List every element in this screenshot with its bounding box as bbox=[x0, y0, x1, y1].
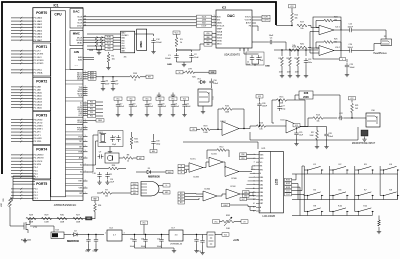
svg-text:X2: X2 bbox=[80, 165, 82, 167]
wire bbox=[240, 193, 246, 195]
wire bbox=[226, 150, 229, 157]
switch K4 bbox=[382, 164, 399, 174]
wire bbox=[292, 194, 305, 195]
node net label bbox=[88, 111, 96, 114]
svg-text:10uF: 10uF bbox=[269, 35, 274, 37]
node MMC net bbox=[105, 35, 113, 38]
wire keypad col tap bbox=[355, 169, 357, 171]
connector X13 DC plug bbox=[51, 230, 64, 239]
svg-text:R38: R38 bbox=[304, 92, 309, 95]
capacitor C4 / C3 cluster box bbox=[246, 52, 264, 65]
wire IC1 pin D- stub bbox=[83, 104, 88, 106]
wire bbox=[119, 168, 127, 170]
wire IC1 pin EVB stub bbox=[83, 151, 88, 153]
wire keypad col tap bbox=[330, 211, 332, 213]
svg-text:SCLK: SCLK bbox=[77, 17, 83, 19]
wire PORT1 pin P1.3/CEX0 bbox=[11, 59, 33, 61]
switch K9 bbox=[306, 206, 323, 216]
op IC2 UDA1330ATS DAC bbox=[214, 6, 252, 48]
svg-text:13: 13 bbox=[253, 199, 255, 201]
wire IC1 pin INT stub bbox=[83, 146, 88, 148]
ground bbox=[377, 229, 381, 234]
node net bbox=[178, 195, 185, 198]
wire bbox=[251, 166, 253, 170]
svg-text:P0.6/AD6: P0.6/AD6 bbox=[34, 36, 43, 39]
wire bbox=[326, 127, 328, 132]
wire bbox=[117, 100, 119, 102]
svg-text:P3.5/T1: P3.5/T1 bbox=[34, 135, 42, 137]
DAC block of IC1 bbox=[70, 9, 83, 29]
svg-text:C47: C47 bbox=[130, 239, 133, 241]
svg-text:P2.4/A12: P2.4/A12 bbox=[34, 97, 43, 100]
wire keypad col tap bbox=[380, 195, 382, 197]
svg-text:P2.6/A14: P2.6/A14 bbox=[34, 103, 43, 106]
wire bbox=[96, 105, 104, 107]
wire bbox=[346, 70, 348, 73]
wire bbox=[212, 32, 216, 34]
node net label bbox=[88, 107, 96, 110]
wire bbox=[308, 26, 319, 28]
wire keypad col tap bbox=[355, 211, 357, 213]
svg-text:33pF: 33pF bbox=[112, 144, 116, 146]
wire I2S bus line bbox=[87, 22, 216, 24]
wire bbox=[95, 244, 97, 247]
svg-text:ROW1: ROW1 bbox=[286, 180, 290, 182]
svg-text:R23: R23 bbox=[294, 58, 297, 60]
resistor R8 bbox=[123, 154, 133, 159]
node VCC bbox=[256, 95, 263, 99]
node net label bbox=[88, 77, 96, 80]
wire bbox=[96, 112, 104, 114]
IC1 pin cell bbox=[66, 179, 84, 184]
svg-text:100nF: 100nF bbox=[119, 106, 124, 108]
port box PORT2 bbox=[33, 77, 50, 111]
svg-text:P0.4/AD4: P0.4/AD4 bbox=[34, 29, 43, 32]
op-amp IC3:E bbox=[225, 167, 239, 177]
wire IC1 pin AVDD stub bbox=[83, 76, 88, 78]
wire bbox=[196, 244, 198, 248]
wire audio L bbox=[274, 49, 318, 51]
svg-text:X1: X1 bbox=[80, 172, 82, 174]
AIN block of IC1 bbox=[70, 49, 83, 70]
svg-text:CD/DAT3: CD/DAT3 bbox=[121, 34, 128, 37]
node VDD label bbox=[204, 32, 212, 35]
svg-text:AIN1: AIN1 bbox=[78, 58, 82, 61]
wire bbox=[247, 154, 257, 156]
wire IC2 to C5 bbox=[252, 41, 268, 43]
IC1 pin cell bbox=[66, 135, 84, 138]
wire MMC signal bbox=[87, 48, 121, 50]
svg-text:DWS: DWS bbox=[78, 20, 83, 22]
capacitor C19 bbox=[145, 102, 149, 109]
svg-text:P2.7/A15: P2.7/A15 bbox=[34, 106, 43, 109]
wire PORT5 pin P5.1 bbox=[11, 191, 33, 193]
resistor R21 bbox=[351, 104, 354, 113]
wire bbox=[131, 132, 133, 137]
svg-text:GND: GND bbox=[265, 66, 270, 68]
wire bbox=[203, 162, 209, 168]
wire pullup gnd join bbox=[97, 47, 102, 51]
svg-text:DB5: DB5 bbox=[260, 196, 264, 198]
wire PORT2 pin P2.4/A12 bbox=[11, 98, 33, 100]
wire bbox=[159, 185, 164, 187]
node net bbox=[222, 233, 229, 237]
diode VD1 bbox=[199, 80, 207, 84]
svg-text:PORT1: PORT1 bbox=[36, 45, 47, 49]
op U21 LCD module bbox=[253, 148, 284, 218]
svg-text:100nF: 100nF bbox=[161, 106, 166, 108]
IC1 pin cell bbox=[66, 186, 84, 191]
svg-text:IC6:1: IC6:1 bbox=[335, 27, 340, 29]
wire bbox=[202, 235, 204, 239]
connector X9 headphone jack bbox=[381, 36, 392, 46]
wire bbox=[88, 119, 97, 121]
svg-text:P1.1/T2EX: P1.1/T2EX bbox=[34, 54, 44, 56]
wire keypad col tap bbox=[304, 169, 306, 171]
node RW bbox=[240, 157, 247, 160]
svg-text:PORT2: PORT2 bbox=[36, 79, 47, 83]
wire IC1 pin ADC0 stub bbox=[83, 72, 88, 74]
wire IC1 pin X1 stub bbox=[83, 171, 88, 173]
svg-text:100nF: 100nF bbox=[262, 106, 268, 108]
wire IC1 pin ISP stub bbox=[83, 193, 88, 195]
crystal BQ1 network box bbox=[98, 131, 123, 147]
ground bbox=[157, 93, 161, 98]
wire PORT2 pin P2.5/A13 bbox=[11, 101, 33, 103]
svg-text:DATA: DATA bbox=[217, 21, 222, 24]
svg-text:100k: 100k bbox=[134, 141, 138, 143]
svg-text:100R: 100R bbox=[76, 221, 81, 223]
svg-text:MMC: MMC bbox=[139, 41, 143, 48]
wire keypad row 2 bbox=[292, 199, 398, 201]
capacitor C28 bbox=[324, 132, 328, 139]
svg-text:100R: 100R bbox=[60, 221, 65, 223]
potentiometer R35 bbox=[9, 198, 12, 207]
wire cap join bbox=[177, 49, 192, 51]
svg-text:VREF: VREF bbox=[217, 29, 223, 31]
svg-text:100nF: 100nF bbox=[348, 47, 354, 49]
svg-text:PVSS: PVSS bbox=[77, 130, 83, 132]
svg-text:P0.5/AD5: P0.5/AD5 bbox=[34, 32, 43, 35]
svg-text:C56: C56 bbox=[213, 80, 216, 82]
svg-text:C10: C10 bbox=[93, 173, 96, 175]
ground bbox=[106, 65, 110, 70]
svg-text:MBR0530: MBR0530 bbox=[148, 174, 160, 178]
wire I2S bus line bbox=[87, 19, 216, 21]
wire IC2 bottom pin stub bbox=[239, 48, 241, 51]
resistor R13 bbox=[257, 122, 266, 127]
svg-text:VD1: VD1 bbox=[197, 78, 201, 80]
wire bbox=[112, 192, 133, 194]
wire AIN pin stub bbox=[83, 59, 87, 61]
wire bbox=[96, 115, 104, 117]
capacitor C18 bbox=[200, 238, 204, 245]
wire IC1 pin ADC1 stub bbox=[83, 74, 88, 76]
wire PORT2 pin P2.0/A8 bbox=[11, 86, 33, 88]
svg-text:VOUTR: VOUTR bbox=[245, 20, 252, 22]
wire PORT3 pin P3.0/RXD bbox=[11, 119, 33, 121]
potentiometer R31 bbox=[222, 215, 234, 230]
svg-text:200K: 200K bbox=[303, 96, 309, 99]
node net bbox=[178, 198, 185, 201]
ground bbox=[86, 247, 90, 252]
wire bbox=[215, 234, 222, 236]
node keypad net bbox=[285, 182, 292, 185]
svg-text:C27: C27 bbox=[281, 106, 284, 108]
wire PORT5 pin bbox=[13, 175, 35, 177]
resistor R38 bbox=[299, 91, 313, 99]
svg-text:PORT3: PORT3 bbox=[36, 114, 47, 118]
wire PORT5 pin P5.2 bbox=[11, 194, 33, 196]
wire bbox=[305, 65, 307, 73]
op-amp IC3:D bbox=[209, 157, 223, 167]
wire IC1 pin MOSI stub bbox=[83, 93, 88, 95]
capacitor C11 bbox=[105, 172, 109, 179]
svg-text:BQ1: BQ1 bbox=[99, 132, 103, 134]
svg-text:10k: 10k bbox=[292, 45, 295, 47]
svg-text:VDDA: VDDA bbox=[217, 31, 223, 34]
svg-text:DB1: DB1 bbox=[260, 181, 264, 183]
svg-text:LCD-1602B: LCD-1602B bbox=[262, 215, 275, 218]
wire bbox=[184, 109, 186, 112]
svg-text:C16: C16 bbox=[157, 239, 160, 241]
node net label bbox=[88, 114, 96, 117]
wire bbox=[291, 8, 293, 13]
svg-text:P3.2/INT0: P3.2/INT0 bbox=[34, 126, 44, 128]
wire feedback1b bbox=[316, 21, 324, 28]
wire PORT2 pin P2.6/A14 bbox=[11, 104, 33, 106]
svg-text:C22: C22 bbox=[339, 113, 342, 115]
node keypad net bbox=[285, 178, 292, 181]
svg-text:PORT5: PORT5 bbox=[36, 182, 47, 186]
wire to X13 bbox=[30, 226, 54, 232]
wire bbox=[305, 50, 307, 56]
wire PORT4 pin P4.5 bbox=[11, 170, 33, 172]
wire bbox=[161, 244, 163, 248]
wire IC1 pin PVDD stub bbox=[83, 127, 88, 129]
wire MMC signal bbox=[87, 45, 121, 47]
svg-text:P0.3/AD3: P0.3/AD3 bbox=[34, 26, 43, 29]
svg-text:DOUT: DOUT bbox=[77, 26, 83, 28]
wire keypad column bbox=[354, 166, 356, 212]
svg-text:P3.0/RXD: P3.0/RXD bbox=[34, 119, 43, 121]
ground bbox=[172, 248, 176, 253]
wire bbox=[254, 64, 256, 66]
node net bbox=[141, 221, 148, 225]
wire bbox=[176, 48, 178, 52]
ground bbox=[362, 137, 366, 142]
wire IC1 pin PVSS stub bbox=[83, 129, 88, 131]
svg-text:DAT2: DAT2 bbox=[121, 32, 125, 35]
svg-text:IC2: IC2 bbox=[222, 6, 227, 10]
capacitor C44 bbox=[86, 237, 90, 244]
wire bbox=[250, 207, 256, 211]
wire PORT0 pin P0.1/AD1 bbox=[11, 20, 33, 22]
resistor R2 bbox=[107, 54, 110, 62]
svg-text:RS0: RS0 bbox=[242, 154, 245, 156]
wire AIN pin stub bbox=[83, 56, 87, 58]
resistor R5 pullup bbox=[95, 37, 98, 47]
wire bbox=[378, 227, 380, 229]
svg-text:P3.7/RD: P3.7/RD bbox=[34, 141, 42, 143]
svg-text:AIN: AIN bbox=[74, 50, 79, 54]
resistor R14 bbox=[313, 114, 323, 119]
switch K11 bbox=[357, 206, 374, 216]
node net bbox=[178, 171, 185, 174]
svg-text:MMC: MMC bbox=[73, 32, 81, 36]
node keypad net bbox=[285, 193, 292, 196]
svg-text:C25: C25 bbox=[350, 64, 353, 66]
wire IC1 pin FILT stub bbox=[83, 136, 88, 138]
wire keypad col tap bbox=[304, 195, 306, 197]
svg-text:1k: 1k bbox=[134, 80, 136, 82]
node net bbox=[209, 71, 216, 75]
wire bbox=[153, 45, 155, 49]
svg-text:10uF: 10uF bbox=[85, 251, 89, 253]
svg-text:PORT0: PORT0 bbox=[36, 11, 47, 15]
node I2S net label bbox=[197, 15, 212, 18]
ground bbox=[116, 112, 120, 117]
port box PORT0 bbox=[33, 8, 50, 42]
wire bbox=[153, 146, 155, 150]
IC1 pin cell bbox=[66, 117, 84, 124]
wire bbox=[289, 66, 291, 73]
connector X12 USB bbox=[141, 182, 159, 196]
wire bbox=[136, 171, 145, 173]
ground bbox=[151, 49, 155, 54]
resistor R29 bbox=[42, 215, 52, 220]
node VCC bbox=[143, 97, 151, 101]
wire bbox=[176, 35, 178, 38]
IC1 pin cell bbox=[66, 170, 84, 175]
wire AIN bbox=[87, 59, 94, 61]
wire bbox=[230, 205, 257, 207]
wire bbox=[88, 235, 90, 238]
wire bbox=[122, 234, 169, 236]
wire bbox=[117, 109, 119, 112]
node VCC bbox=[289, 5, 296, 9]
wire to jack ring bbox=[352, 44, 381, 51]
resistor R1 bbox=[175, 38, 178, 47]
svg-text:C37: C37 bbox=[115, 81, 118, 83]
node VCC label bbox=[204, 39, 212, 42]
wire IC1 pin VSS stub bbox=[83, 187, 88, 189]
node net bbox=[213, 220, 220, 224]
IC1 pin cell bbox=[66, 150, 84, 153]
IC1 pin cell bbox=[66, 140, 84, 143]
svg-text:1k: 1k bbox=[127, 161, 129, 163]
node net bbox=[137, 156, 144, 160]
resistor R7 bbox=[102, 189, 112, 194]
svg-text:LIN: LIN bbox=[192, 129, 194, 131]
wire bbox=[217, 194, 226, 196]
wire out IC5:2 bbox=[239, 128, 244, 130]
svg-text:R21: R21 bbox=[355, 105, 358, 107]
node USB net bbox=[131, 192, 138, 195]
wire bbox=[316, 127, 318, 131]
svg-text:26: 26 bbox=[84, 24, 86, 26]
wire bbox=[185, 165, 190, 167]
svg-text:10K: 10K bbox=[226, 228, 230, 230]
node net bbox=[246, 192, 253, 195]
node net label bbox=[88, 75, 96, 78]
wire bbox=[212, 36, 216, 38]
svg-text:KEY: KEY bbox=[180, 199, 183, 201]
wire LCD data comb bbox=[252, 165, 256, 167]
wire PORT3 pin P3.6/WR bbox=[11, 137, 33, 139]
node MMC net bbox=[105, 41, 113, 44]
svg-text:CPU: CPU bbox=[54, 13, 62, 17]
resistor R15 bbox=[277, 96, 287, 101]
wire DAC pin stub bbox=[83, 22, 87, 24]
wire X1 bbox=[87, 135, 98, 172]
svg-text:UVSS: UVSS bbox=[77, 122, 83, 124]
svg-text:SCLK: SCLK bbox=[77, 23, 83, 25]
svg-text:23: 23 bbox=[84, 15, 86, 17]
ground bbox=[182, 62, 186, 67]
resistor R19b bbox=[297, 24, 307, 27]
wire bbox=[212, 40, 216, 42]
capacitor C25 bbox=[345, 63, 349, 70]
svg-text:C36: C36 bbox=[105, 81, 108, 83]
wire PORT2 pin P2.1/A9 bbox=[11, 89, 33, 91]
ground bbox=[182, 112, 186, 117]
svg-text:100nF: 100nF bbox=[130, 246, 135, 248]
node VCC bbox=[169, 97, 177, 101]
wire bbox=[291, 22, 293, 26]
capacitor C30b bbox=[294, 130, 298, 137]
capacitor C1 bbox=[174, 53, 178, 60]
svg-text:R34: R34 bbox=[98, 205, 101, 207]
wire bbox=[297, 50, 299, 56]
wire PORT3 pin P3.4/T0 bbox=[11, 131, 33, 133]
op-amp IC5:2 bbox=[222, 122, 239, 136]
wire IC2 FS bbox=[252, 26, 258, 31]
wire feedback bbox=[218, 109, 222, 129]
svg-text:P1.3/CEX0: P1.3/CEX0 bbox=[34, 60, 45, 62]
crystal BQ1 bbox=[99, 132, 106, 143]
wire bbox=[185, 168, 190, 170]
wire bbox=[305, 118, 313, 127]
svg-text:R24: R24 bbox=[334, 17, 337, 19]
node GND3 bbox=[86, 217, 93, 220]
wire keypad column bbox=[303, 166, 305, 212]
ground bbox=[315, 144, 319, 149]
node net bbox=[176, 71, 183, 75]
svg-text:LIGHT: LIGHT bbox=[223, 205, 228, 207]
wire X2 bbox=[87, 141, 98, 165]
resistor R33 bbox=[130, 73, 140, 78]
node bias bbox=[340, 58, 346, 61]
svg-text:P2.3/A11: P2.3/A11 bbox=[34, 94, 43, 97]
wire bbox=[172, 109, 174, 112]
svg-text:DAT0: DAT0 bbox=[121, 47, 125, 50]
wire bbox=[184, 100, 186, 102]
svg-text:HeadPhones: HeadPhones bbox=[373, 53, 387, 55]
svg-text:C26: C26 bbox=[262, 103, 265, 105]
port box PORT4 bbox=[33, 145, 50, 179]
wire PORT1 pin P1.2/ECI bbox=[11, 56, 33, 58]
wire bbox=[252, 53, 259, 55]
wire PORT2 pin P2.2/A10 bbox=[11, 92, 33, 94]
svg-text:10uF: 10uF bbox=[194, 57, 199, 59]
capacitor C5 bbox=[268, 40, 274, 44]
resistor R23 bbox=[297, 57, 300, 66]
svg-text:P1.6/SCL: P1.6/SCL bbox=[34, 70, 43, 72]
wire bbox=[249, 195, 256, 197]
wire PORT4 pin P4.2/SCK bbox=[11, 160, 33, 162]
IC1 pin cell bbox=[66, 101, 84, 117]
